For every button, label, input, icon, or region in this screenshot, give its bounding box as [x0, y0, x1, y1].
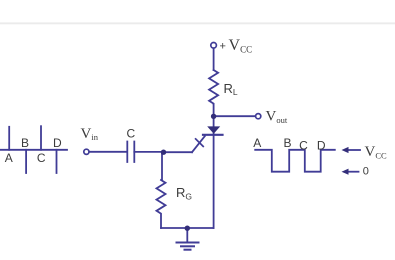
bottom wire to emitter [161, 227, 214, 229]
wire collector node to Vout [214, 115, 256, 117]
svg-text:RL: RL [224, 81, 238, 97]
output square wave [255, 150, 335, 172]
node dot ground [185, 226, 190, 231]
arrow VCC level line [348, 149, 360, 151]
input spike D (down) [56, 150, 58, 173]
svg-text:A: A [253, 136, 261, 150]
node dot input [161, 150, 166, 155]
svg-text:C: C [299, 138, 308, 152]
resistor RG zigzag [157, 180, 166, 228]
svg-text:VCC: VCC [365, 144, 388, 161]
svg-text:B: B [283, 136, 291, 150]
capacitor C plates [127, 142, 134, 163]
transistor vertical (collector-emitter line) [213, 117, 215, 228]
arrow 0 level line [348, 171, 359, 173]
base diagonal lead [192, 136, 205, 152]
wire RL to collector node [213, 104, 215, 117]
wire base horizontal [164, 151, 192, 153]
svg-text:B: B [21, 136, 29, 150]
input spike B (down) [25, 150, 27, 173]
node dot collector [211, 114, 216, 119]
terminal +VCC [211, 43, 217, 49]
input spike A (up) [8, 127, 10, 150]
svg-text:+: + [220, 40, 226, 52]
svg-text:C: C [37, 151, 46, 165]
svg-text:Vin: Vin [81, 126, 99, 142]
input spike waveform baseline [0, 149, 67, 151]
svg-text:D: D [53, 136, 62, 150]
ground stub [186, 228, 188, 242]
wire Vin to capacitor [89, 151, 126, 153]
faint page rule [0, 22, 395, 24]
svg-text:0: 0 [363, 166, 369, 178]
transistor base bar [203, 134, 223, 136]
arrowhead 0 level [342, 169, 349, 175]
svg-text:C: C [126, 127, 135, 141]
transistor emitter arrow (down triangle) [207, 126, 220, 133]
resistor RL zigzag [209, 70, 218, 104]
wire node down to RG [161, 152, 163, 180]
svg-text:VCC: VCC [229, 37, 253, 55]
svg-text:RG: RG [176, 185, 192, 201]
terminal Vin [84, 149, 89, 154]
wire VCC to RL [213, 48, 215, 70]
svg-text:A: A [5, 151, 13, 165]
arrowhead VCC level [342, 147, 349, 153]
wire capacitor to node [134, 151, 162, 153]
X mark on base lead [196, 139, 204, 147]
svg-text:Vout: Vout [266, 109, 288, 126]
svg-text:D: D [317, 138, 326, 152]
input spike C (up) [40, 126, 42, 150]
terminal Vout [256, 114, 261, 119]
ground bars [177, 242, 199, 244]
